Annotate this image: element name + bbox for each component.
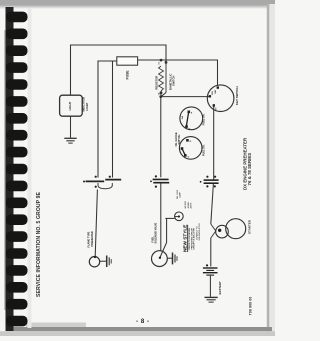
starter motor [226,219,252,239]
svg-text:PREHEATER: PREHEATER [91,231,94,246]
wire: lamp branch down into solenoid (diagonal) [160,218,167,257]
wire: connector 3 to starter kink [211,184,214,224]
svg-text:ASSY.: ASSY. [189,202,192,208]
spiral comb binding spine [5,7,14,331]
svg-text:GA: GA [181,115,184,119]
connector 2 [150,175,169,187]
svg-text:SOLENOID STUD: SOLENOID STUD [199,223,201,241]
fuse F1 [117,57,138,80]
right page edge line [267,4,270,336]
wire: starter kink to battery [210,238,212,267]
wire: indicator light to ground [70,116,72,138]
svg-text:76 & 78 SERIES: 76 & 78 SERIES [247,153,252,186]
bi-metallic switch [166,62,176,92]
indicator lamp (new style) [175,212,184,221]
svg-text:BAT: BAT [214,89,217,94]
svg-text:FUEL GA.: FUEL GA. [202,144,205,156]
node: fuse/resistor junction dots [159,59,167,98]
NEW STYLE note [182,225,195,252]
wire: node down to connector 2 [160,97,162,178]
binding shadow on page [28,8,32,328]
svg-text:- 8 -: - 8 - [136,319,150,325]
svg-text:SWITCH: SWITCH [178,134,181,144]
label FUEL SOLENOID VALVE [152,222,158,243]
svg-text:LAMP: LAMP [179,191,182,198]
side ground at preheater [107,256,112,268]
resistor [154,61,163,95]
side ground at solenoid [173,253,178,265]
wire: lamp branch horizontal [165,217,174,219]
svg-text:NEW STYLE: NEW STYLE [182,225,187,252]
label near starter terminal [196,223,201,241]
svg-text:FUSE: FUSE [126,70,130,80]
gauge 2 (temp gauge) [179,137,205,160]
svg-text:LIGHT: LIGHT [68,101,72,110]
svg-text:T98 969 06: T98 969 06 [248,297,252,316]
wire: connector 2 down to fuel solenoid valve [160,183,162,250]
comb binding teeth [6,12,28,327]
connector 1 [83,176,121,189]
svg-text:LIGHT: LIGHT [85,102,89,110]
ground under battery [205,297,218,302]
ground under indicator light [64,138,76,143]
starter solenoid terminal [216,225,229,238]
indicator light box [60,95,89,116]
svg-text:RESISTOR: RESISTOR [154,76,158,90]
label FLAME TYPE PREHEATER [88,231,94,247]
battery [203,264,222,294]
wire: battery to ground [209,276,211,297]
wire: key switch ST down to connector 3 [213,106,215,180]
svg-text:SERVICE INFORMATION NO. 5 GR: SERVICE INFORMATION NO. 5 GROUP 9E [36,191,42,297]
svg-text:IGN: IGN [212,91,214,95]
svg-text:SOLENOID VALVE: SOLENOID VALVE [155,222,158,243]
top photo edge band [0,0,275,9]
svg-text:FUEL GA.: FUEL GA. [203,113,206,125]
wire: node to key switch IGN terminal [161,96,210,98]
wire: junction to key switch BAT terminal [161,60,218,85]
wire: fuse input and drop to connector 1 (left) [98,61,117,178]
svg-text:G: G [188,156,190,158]
svg-text:BATTERY: BATTERY [218,281,222,294]
svg-text:GROUP 9 E BULLETIN: GROUP 9 E BULLETIN [194,228,196,250]
wire: preheater to side ground [99,260,106,262]
svg-text:KEY SWITCH: KEY SWITCH [235,86,239,105]
key switch [207,85,239,112]
wire: fuse output to resistor junction [138,59,162,61]
svg-text:G: G [189,129,191,131]
connector 3 [200,176,219,188]
wire: second drop to connector 1 (right) [112,62,114,178]
wire: resistor bottom node link [161,93,166,97]
label between gauges (left) [175,132,181,146]
starter kink / arrow [211,224,216,238]
bottom page edge band [26,323,86,328]
wire: solenoid to side ground [167,257,172,259]
wire: top rail from indicator light to bi-metallic switch [71,45,167,95]
flame type preheater (glow plug) [89,256,99,267]
fuel solenoid valve [152,251,168,267]
svg-text:STARTER: STARTER [248,219,252,234]
wire: connector 1 to flame preheater [95,190,97,257]
gauge 1 (fuel gauge) [180,107,206,131]
note near lamp / connector 2 [177,189,192,208]
svg-text:SWITCH: SWITCH [172,76,176,86]
